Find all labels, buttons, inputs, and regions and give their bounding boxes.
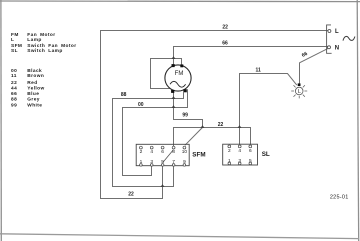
page border bottom xyxy=(0,234,359,239)
wire crossing hop at 66/loop xyxy=(172,56,176,59)
pin 4 xyxy=(238,145,241,148)
svg-text:8: 8 xyxy=(172,149,175,155)
svg-text:Fan Motor: Fan Motor xyxy=(27,32,55,38)
svg-text:Lamp: Lamp xyxy=(27,37,41,43)
svg-text:SFM: SFM xyxy=(192,152,205,159)
wire 99 from motor bottom-left terminal to SFM pin 10 xyxy=(174,92,203,145)
pin 1 xyxy=(140,164,143,167)
svg-text:5: 5 xyxy=(161,159,164,165)
svg-text:White: White xyxy=(27,102,42,108)
pin 3 xyxy=(238,162,241,165)
svg-text:9: 9 xyxy=(183,159,186,165)
svg-text:4: 4 xyxy=(150,149,153,155)
svg-text:11: 11 xyxy=(256,67,262,73)
svg-text:L: L xyxy=(11,37,14,43)
switch contact 5-8 xyxy=(163,150,173,163)
svg-text:22: 22 xyxy=(222,24,228,30)
svg-text:SL: SL xyxy=(11,48,18,54)
legend wire colours xyxy=(11,68,45,109)
motor terminal bottom-right xyxy=(183,89,186,92)
wire 00 from motor right terminal to SFM pin 3 xyxy=(123,89,188,175)
wire 88 from motor bottom-right terminal to SFM pin 7 xyxy=(113,92,184,186)
svg-text:7: 7 xyxy=(172,159,175,165)
svg-text:4: 4 xyxy=(238,148,241,154)
svg-text:6: 6 xyxy=(161,149,164,155)
svg-text:SL: SL xyxy=(262,151,270,158)
svg-text:2: 2 xyxy=(228,148,231,154)
pin 10 xyxy=(183,146,186,149)
lamp terminal xyxy=(298,83,301,86)
page border top xyxy=(0,0,360,3)
motor terminal top-right xyxy=(180,64,183,67)
svg-text:99: 99 xyxy=(11,102,17,108)
svg-text:99: 99 xyxy=(182,113,188,119)
pin 3 xyxy=(150,164,153,167)
lamp L xyxy=(291,83,307,98)
wire 66 from N terminal to motor top xyxy=(174,47,328,65)
svg-text:L: L xyxy=(298,89,301,95)
wire 66 branch from N terminal to lamp xyxy=(300,48,329,83)
svg-text:66: 66 xyxy=(11,91,17,97)
page border left xyxy=(0,0,2,241)
pin 5 xyxy=(161,164,164,167)
terminal L xyxy=(328,30,331,33)
svg-text:10: 10 xyxy=(182,149,188,155)
svg-text:22: 22 xyxy=(128,191,134,197)
wire crossing hop at 22/11 xyxy=(238,125,242,128)
wire crossing hop at 22/99 xyxy=(201,125,205,128)
wire crossing hop at 00/99 xyxy=(172,105,176,108)
svg-text:00: 00 xyxy=(11,68,17,74)
pin 2 xyxy=(140,146,143,149)
svg-text:FM: FM xyxy=(175,71,184,77)
svg-text:88: 88 xyxy=(11,97,17,103)
legend component names xyxy=(11,32,76,54)
svg-text:22: 22 xyxy=(11,80,17,86)
svg-text:88: 88 xyxy=(121,92,127,98)
svg-text:11: 11 xyxy=(11,73,17,79)
svg-text:Red: Red xyxy=(27,80,37,86)
pin 6 xyxy=(249,145,252,148)
AC tilde symbol xyxy=(343,36,355,40)
pin 1 xyxy=(228,162,231,165)
svg-text:L: L xyxy=(335,29,339,35)
svg-text:Blue: Blue xyxy=(27,91,39,97)
svg-text:Yellow: Yellow xyxy=(27,86,44,92)
svg-text:Brown: Brown xyxy=(27,73,44,79)
wire crossing hop at 88/22 xyxy=(161,184,165,187)
motor auxiliary loop wire xyxy=(151,59,182,89)
svg-text:3: 3 xyxy=(150,159,153,165)
svg-text:1: 1 xyxy=(140,159,143,165)
pin 6 xyxy=(161,146,164,149)
svg-text:FM: FM xyxy=(11,32,19,38)
pin 4 xyxy=(150,146,153,149)
svg-text:225-01: 225-01 xyxy=(330,194,349,200)
wire 22 main loop: L terminal, top, left side, bottom, up to SFM pin 5 xyxy=(101,31,328,199)
svg-text:2: 2 xyxy=(140,149,143,155)
svg-text:6: 6 xyxy=(249,148,252,154)
pin 5 xyxy=(249,162,252,165)
motor terminal top-left xyxy=(172,64,175,67)
svg-text:Switch Lamp: Switch Lamp xyxy=(27,48,62,54)
wire crossing hop at 88/99 xyxy=(172,96,176,99)
svg-text:44: 44 xyxy=(11,86,17,92)
svg-text:Grey: Grey xyxy=(27,97,40,103)
page border right xyxy=(357,0,359,241)
svg-text:22: 22 xyxy=(218,122,224,128)
svg-text:1: 1 xyxy=(228,158,231,164)
motor terminal bottom-left xyxy=(171,90,174,93)
terminal N xyxy=(328,46,331,49)
wire 11 from SL pin 4 to lamp xyxy=(240,74,297,145)
svg-text:00: 00 xyxy=(138,102,144,108)
svg-text:N: N xyxy=(335,46,339,52)
svg-text:Black: Black xyxy=(27,68,42,74)
wire labels xyxy=(121,24,309,197)
pin 2 xyxy=(228,145,231,148)
pin 8 xyxy=(172,146,175,149)
svg-text:5: 5 xyxy=(249,158,252,164)
connector SFM xyxy=(136,144,205,166)
pin 7 xyxy=(172,164,175,167)
pin 9 xyxy=(183,164,186,167)
connector SL xyxy=(223,144,270,165)
fan motor FM xyxy=(165,64,191,93)
svg-text:3: 3 xyxy=(238,158,241,164)
mains connector bracket xyxy=(327,25,332,53)
svg-text:66: 66 xyxy=(222,41,228,47)
wire 22 from SFM pin 8 to SL pin 6 xyxy=(174,128,251,147)
